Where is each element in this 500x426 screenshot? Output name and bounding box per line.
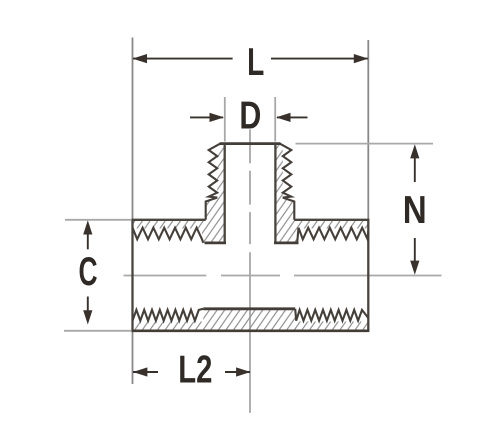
dimension L2 line left bbox=[133, 371, 158, 373]
female thread upper-left bbox=[133, 228, 204, 243]
body left edge bbox=[131, 220, 133, 331]
arrowhead N up bbox=[410, 144, 419, 158]
arrowhead L left bbox=[133, 54, 148, 63]
extension line N top bbox=[296, 143, 434, 145]
svg-text:D: D bbox=[239, 94, 261, 137]
bore bottom smooth line bbox=[203, 307, 295, 310]
branch outer profile right (male thread) bbox=[280, 144, 295, 220]
extension line right (L datum) bbox=[367, 40, 369, 220]
dimension N stem top bbox=[414, 156, 416, 182]
extension line D right bbox=[274, 97, 276, 142]
arrowhead L right bbox=[354, 54, 369, 63]
body top edge left bbox=[131, 219, 205, 221]
branch outer profile left (male thread) bbox=[206, 144, 221, 220]
arrowhead L2 right bbox=[236, 367, 251, 376]
dimension N stem bottom bbox=[414, 238, 416, 263]
female thread lower-right bbox=[295, 309, 368, 321]
centerline vertical bbox=[249, 129, 251, 413]
extension line C top bbox=[65, 219, 131, 221]
hatch bottom wall section bbox=[133, 309, 369, 331]
svg-text:L: L bbox=[247, 40, 264, 84]
dimension D line right bbox=[277, 116, 308, 118]
branch bore right line bbox=[274, 144, 276, 243]
svg-text:N: N bbox=[403, 187, 427, 231]
bore top smooth line left bbox=[205, 241, 227, 244]
svg-text:C: C bbox=[78, 250, 97, 295]
hatch right wall section bbox=[275, 144, 368, 243]
dimension L line left bbox=[133, 58, 233, 60]
dimension L line right bbox=[271, 58, 368, 60]
centerline horizontal bbox=[124, 275, 442, 277]
branch bore left line bbox=[224, 144, 226, 243]
arrowhead L2 left bbox=[133, 367, 148, 376]
body right edge bbox=[367, 220, 369, 331]
arrowhead N down bbox=[410, 261, 419, 275]
arrowhead D right bbox=[276, 113, 291, 122]
branch top edge bbox=[220, 142, 281, 145]
body bottom edge bbox=[131, 329, 369, 332]
dimension C stem bottom bbox=[87, 297, 89, 313]
body top edge right bbox=[294, 219, 369, 221]
female thread lower-left bbox=[133, 309, 204, 321]
svg-text:L2: L2 bbox=[178, 349, 212, 392]
arrowhead D left bbox=[210, 113, 225, 122]
extension line C bottom bbox=[64, 330, 131, 332]
extension line left (L/C/L2 datum) bbox=[132, 38, 134, 385]
female thread upper-right bbox=[297, 228, 368, 243]
extension line D left bbox=[224, 97, 226, 142]
bore top smooth line right bbox=[274, 241, 299, 244]
arrowhead C down bbox=[83, 310, 92, 324]
dimension D line left bbox=[190, 116, 223, 118]
dimension L2 line right bbox=[225, 371, 250, 373]
hatch left wall section bbox=[133, 144, 225, 243]
dimension C stem top bbox=[87, 233, 89, 249]
arrowhead C up bbox=[83, 220, 92, 234]
